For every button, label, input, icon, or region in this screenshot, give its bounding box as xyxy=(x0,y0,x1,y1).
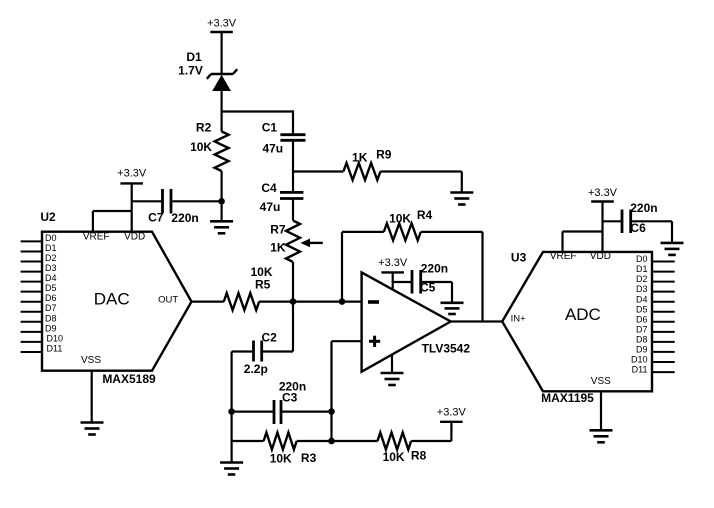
capacitor C1 47u xyxy=(262,121,306,156)
svg-text:C3: C3 xyxy=(282,390,298,404)
wire: left rail (C2/C3/R3) xyxy=(231,352,233,463)
svg-text:10K: 10K xyxy=(389,211,411,225)
svg-text:D4: D4 xyxy=(45,273,57,283)
svg-text:220n: 220n xyxy=(630,201,657,215)
ground (C6) xyxy=(661,243,684,255)
svg-text:VSS: VSS xyxy=(591,376,611,387)
svg-text:TLV3542: TLV3542 xyxy=(422,341,471,355)
svg-text:D5: D5 xyxy=(45,283,57,293)
svg-text:D1: D1 xyxy=(186,50,202,64)
svg-text:D2: D2 xyxy=(45,253,57,263)
svg-text:VSS: VSS xyxy=(81,355,101,366)
svg-text:D2: D2 xyxy=(636,274,648,284)
svg-text:VDD: VDD xyxy=(590,251,611,262)
svg-text:+3.3V: +3.3V xyxy=(207,18,237,30)
svg-text:1K: 1K xyxy=(270,241,286,255)
svg-text:D3: D3 xyxy=(45,263,57,273)
svg-text:D8: D8 xyxy=(636,335,648,345)
resistor R5 10K xyxy=(224,265,273,310)
ground (C5) xyxy=(441,303,464,314)
wire: node to op-amp + input xyxy=(332,341,362,441)
ground (ADC VSS) xyxy=(590,391,613,442)
svg-text:R5: R5 xyxy=(255,278,271,292)
svg-text:2.2p: 2.2p xyxy=(244,362,268,376)
wire: R5 to op-amp inverting input xyxy=(259,301,362,303)
svg-text:+3.3V: +3.3V xyxy=(117,167,147,179)
svg-text:VREF: VREF xyxy=(83,232,110,243)
junction: R2/C7/ground node xyxy=(218,198,225,205)
svg-text:DAC: DAC xyxy=(94,290,130,309)
op-amp U1 TLV3542 xyxy=(362,272,471,371)
svg-text:+3.3V: +3.3V xyxy=(378,257,408,269)
svg-text:R7: R7 xyxy=(270,222,286,236)
svg-text:D6: D6 xyxy=(45,293,57,303)
svg-text:D1: D1 xyxy=(636,264,648,274)
wire: C4 bottom to R7 xyxy=(292,199,294,221)
power +3.3V (DAC VDD) xyxy=(117,167,147,231)
svg-text:D8: D8 xyxy=(45,313,57,323)
resistor R3 10K xyxy=(232,433,332,466)
svg-text:C7: C7 xyxy=(148,211,164,225)
svg-text:10K: 10K xyxy=(190,140,212,154)
svg-text:U2: U2 xyxy=(40,210,56,224)
svg-text:47u: 47u xyxy=(262,141,283,155)
resistor R2 10K xyxy=(190,121,229,171)
svg-text:VDD: VDD xyxy=(124,232,145,243)
svg-text:1K: 1K xyxy=(352,151,368,165)
svg-text:C6: C6 xyxy=(630,221,646,235)
svg-text:47u: 47u xyxy=(260,200,281,214)
resistor R4 10K feedback xyxy=(342,208,483,322)
svg-text:D6: D6 xyxy=(636,314,648,324)
svg-text:R4: R4 xyxy=(417,208,433,222)
svg-text:D10: D10 xyxy=(47,333,64,343)
svg-text:C2: C2 xyxy=(262,331,278,345)
svg-text:R2: R2 xyxy=(196,121,212,135)
ground (op-amp V-) xyxy=(381,355,404,385)
junction: C3 left xyxy=(228,408,235,415)
wire: DAC OUT to R5 xyxy=(192,301,224,303)
ground (DAC VSS) xyxy=(81,371,104,435)
wire: D1 anode node to C1 xyxy=(222,110,293,133)
wire: op-amp output to ADC IN+ xyxy=(451,320,503,322)
wire: R2 bottom to junction xyxy=(221,171,223,201)
svg-text:C5: C5 xyxy=(420,280,436,294)
svg-text:ADC: ADC xyxy=(565,305,601,324)
capacitor C5 220n xyxy=(393,261,452,303)
junction: summing node A xyxy=(290,298,297,305)
svg-text:R9: R9 xyxy=(376,147,392,161)
wire: C1 bottom to C4 top xyxy=(292,140,294,192)
svg-text:U3: U3 xyxy=(511,250,527,264)
svg-text:MAX5189: MAX5189 xyxy=(102,372,156,386)
capacitor C4 47u xyxy=(260,181,304,214)
ground (R2/C7 node) xyxy=(210,201,233,233)
svg-text:VREF: VREF xyxy=(550,251,577,262)
power +3.3V (op-amp V+) xyxy=(378,257,408,290)
svg-text:220n: 220n xyxy=(171,211,198,225)
DAC data pins D0-D11 xyxy=(21,233,63,354)
svg-text:D9: D9 xyxy=(636,345,648,355)
svg-text:D9: D9 xyxy=(45,323,57,333)
svg-text:C4: C4 xyxy=(261,181,277,195)
wire: R7 bottom to node xyxy=(292,262,294,302)
capacitor C6 220n xyxy=(603,201,673,243)
power +3.3V (ADC VDD) xyxy=(588,187,618,252)
svg-text:220n: 220n xyxy=(421,261,448,275)
svg-text:D0: D0 xyxy=(45,233,57,243)
capacitor C3 220n xyxy=(232,380,332,424)
svg-text:D3: D3 xyxy=(636,284,648,294)
ground (left rail) xyxy=(220,463,243,475)
svg-text:10K: 10K xyxy=(383,450,405,464)
junction: R3 right xyxy=(328,438,335,445)
ground (R9 right) xyxy=(450,193,473,205)
svg-text:10K: 10K xyxy=(270,451,292,465)
svg-text:MAX1195: MAX1195 xyxy=(541,391,594,405)
power +3.3V (R8) xyxy=(437,406,467,421)
ADC data pins D0-D11 xyxy=(631,254,675,375)
svg-text:IN+: IN+ xyxy=(511,314,527,325)
svg-text:R8: R8 xyxy=(411,449,427,463)
svg-text:D4: D4 xyxy=(636,294,648,304)
DAC U2 body xyxy=(40,210,191,386)
svg-text:D1: D1 xyxy=(45,243,57,253)
resistor R9 1K xyxy=(293,147,462,192)
svg-text:D10: D10 xyxy=(631,355,648,365)
power +3.3V (D1 supply) xyxy=(207,18,237,75)
svg-text:D0: D0 xyxy=(636,254,648,264)
junction: feedback node B xyxy=(339,298,346,305)
svg-text:D5: D5 xyxy=(636,304,648,314)
svg-text:D11: D11 xyxy=(47,344,63,354)
zener diode D1 1.7V xyxy=(178,50,237,132)
capacitor C7 220n xyxy=(132,189,222,225)
svg-text:OUT: OUT xyxy=(158,295,178,306)
capacitor C2 2.2p xyxy=(232,302,293,376)
ADC U3 body xyxy=(502,250,652,405)
wire: ADC VREF to VDD net xyxy=(563,232,603,252)
svg-text:1.7V: 1.7V xyxy=(178,63,203,77)
svg-text:R3: R3 xyxy=(301,451,317,465)
svg-text:D7: D7 xyxy=(45,303,57,313)
svg-text:D11: D11 xyxy=(632,365,648,375)
svg-text:+3.3V: +3.3V xyxy=(437,406,467,418)
svg-text:+3.3V: +3.3V xyxy=(588,187,618,199)
resistor R8 10K xyxy=(332,422,452,464)
junction: C3 right xyxy=(328,408,335,415)
svg-text:D7: D7 xyxy=(636,325,648,335)
wire: DAC VREF to VDD net xyxy=(93,211,132,232)
potentiometer R7 1K xyxy=(270,221,323,263)
svg-text:C1: C1 xyxy=(262,121,278,135)
